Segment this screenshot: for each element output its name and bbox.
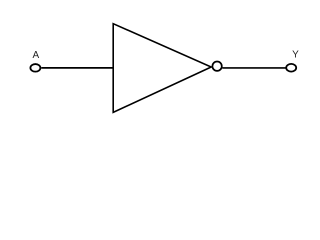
wire input A to inverter <box>41 67 113 69</box>
inverter U1 output bubble <box>212 61 221 70</box>
svg-text:A: A <box>32 50 39 61</box>
inverter U1 triangle <box>113 24 211 113</box>
output terminal Y <box>286 64 296 72</box>
svg-text:Y: Y <box>292 50 299 61</box>
wire inverter to Y <box>222 67 285 69</box>
input terminal A <box>30 64 40 72</box>
